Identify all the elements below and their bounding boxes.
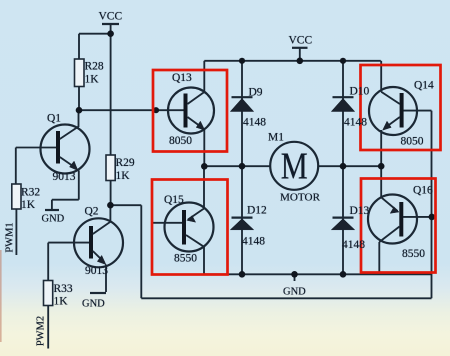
svg-text:GND: GND [42,214,65,225]
svg-text:8050: 8050 [169,135,192,147]
svg-text:8550: 8550 [402,248,425,260]
svg-text:1K: 1K [116,170,131,182]
svg-text:4148: 4148 [242,236,265,248]
svg-text:GND: GND [82,299,105,310]
svg-text:1K: 1K [21,199,36,211]
svg-text:Q15: Q15 [164,194,184,206]
svg-text:M1: M1 [268,132,284,144]
svg-text:PWM2: PWM2 [36,316,47,346]
svg-text:4148: 4148 [243,117,266,129]
svg-text:9013: 9013 [53,171,76,183]
svg-text:1K: 1K [54,296,69,308]
svg-text:R32: R32 [21,187,40,199]
svg-text:1K: 1K [85,74,100,86]
svg-text:PWM1: PWM1 [5,222,16,252]
svg-text:9013: 9013 [85,265,108,277]
svg-text:MOTOR: MOTOR [280,193,320,204]
svg-text:VCC: VCC [99,11,123,23]
svg-text:R33: R33 [54,283,73,295]
svg-text:Q16: Q16 [413,185,433,197]
svg-text:4148: 4148 [342,239,365,251]
svg-text:D13: D13 [350,205,370,217]
svg-text:8050: 8050 [401,136,424,148]
svg-text:VCC: VCC [289,35,313,47]
svg-text:8550: 8550 [174,253,197,265]
svg-text:R29: R29 [116,157,135,169]
svg-text:M: M [281,146,308,188]
svg-text:Q1: Q1 [47,113,61,125]
svg-text:Q13: Q13 [172,72,192,84]
svg-text:R28: R28 [85,61,104,73]
svg-text:Q14: Q14 [414,80,434,92]
svg-text:D10: D10 [350,86,370,98]
svg-text:Q2: Q2 [85,206,99,218]
svg-text:4148: 4148 [344,117,367,129]
svg-text:GND: GND [283,287,306,298]
svg-text:D12: D12 [247,205,267,217]
svg-text:D9: D9 [249,87,263,99]
